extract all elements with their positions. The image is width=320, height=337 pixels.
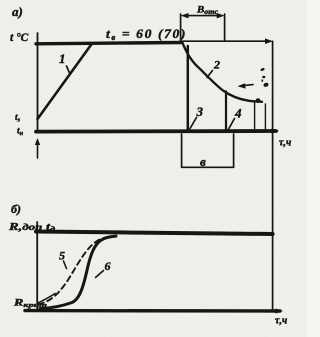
svg-text:τ,ч: τ,ч bbox=[275, 316, 287, 327]
svg-text:1: 1 bbox=[59, 51, 66, 66]
svg-text:t °C: t °C bbox=[10, 32, 29, 44]
svg-text:а): а) bbox=[12, 4, 23, 19]
svg-text:2: 2 bbox=[213, 58, 220, 72]
svg-text:6: 6 bbox=[105, 259, 111, 273]
svg-text:tв = 60 (70): tв = 60 (70) bbox=[106, 27, 187, 42]
svg-text:4: 4 bbox=[234, 106, 242, 121]
svg-text:в: в bbox=[200, 154, 206, 169]
svg-text:R,доп tд: R,доп tд bbox=[8, 222, 56, 234]
svg-text:5: 5 bbox=[59, 249, 65, 263]
svg-text:3: 3 bbox=[196, 104, 204, 119]
svg-text:τ,ч: τ,ч bbox=[279, 138, 291, 149]
svg-text:б): б) bbox=[11, 202, 21, 216]
svg-text:Вотс: Вотс bbox=[196, 6, 218, 17]
